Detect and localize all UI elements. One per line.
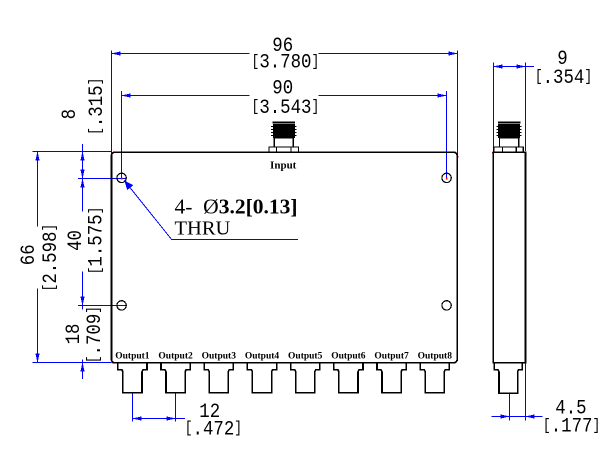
svg-text:Output6: Output6 <box>331 351 366 361</box>
svg-text:Output4: Output4 <box>245 351 280 361</box>
svg-text:THRU: THRU <box>175 217 231 239</box>
svg-text:Output8: Output8 <box>418 351 453 361</box>
svg-text:Output2: Output2 <box>158 351 193 361</box>
svg-text:Output7: Output7 <box>374 351 409 361</box>
svg-text:[.354]: [.354] <box>535 66 592 90</box>
svg-text:[.315]: [.315] <box>85 78 109 135</box>
svg-text:Output3: Output3 <box>202 351 237 361</box>
svg-text:Output1: Output1 <box>115 351 150 361</box>
svg-text:Input: Input <box>270 160 297 172</box>
svg-text:Output5: Output5 <box>288 351 323 361</box>
svg-text:[2.598]: [2.598] <box>39 224 63 292</box>
svg-text:8: 8 <box>58 109 82 119</box>
svg-text:66: 66 <box>17 244 41 265</box>
svg-text:[.177]: [.177] <box>543 414 600 438</box>
svg-text:[1.575]: [1.575] <box>84 207 108 275</box>
svg-text:4- Ø3.2[0.13]: 4- Ø3.2[0.13] <box>175 195 298 219</box>
svg-text:[3.780]: [3.780] <box>252 50 320 74</box>
svg-text:[.472]: [.472] <box>185 417 242 441</box>
svg-text:[.709]: [.709] <box>83 306 107 363</box>
svg-text:[3.543]: [3.543] <box>252 96 320 120</box>
